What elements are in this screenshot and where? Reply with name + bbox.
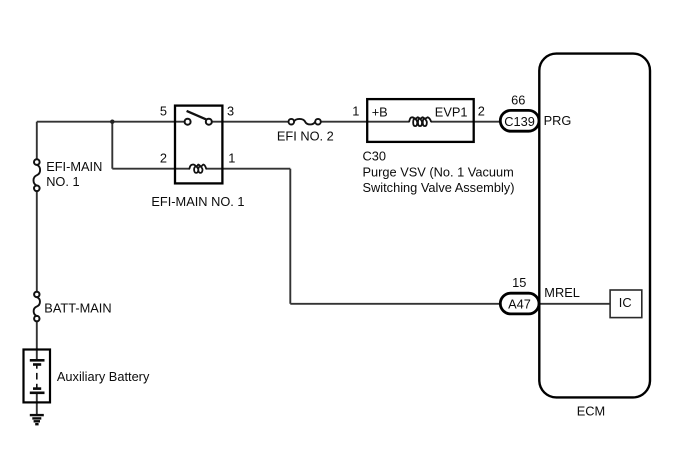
- svg-text:ECM: ECM: [577, 404, 605, 419]
- svg-text:3: 3: [227, 103, 234, 118]
- svg-text:2: 2: [160, 151, 167, 166]
- svg-text:C30: C30: [363, 149, 386, 164]
- svg-text:Purge VSV (No. 1 Vacuum: Purge VSV (No. 1 Vacuum: [363, 165, 514, 180]
- svg-text:+B: +B: [372, 104, 388, 119]
- svg-text:MREL: MREL: [544, 285, 580, 300]
- svg-text:A47: A47: [508, 297, 531, 312]
- svg-text:1: 1: [352, 103, 359, 118]
- svg-text:BATT-MAIN: BATT-MAIN: [44, 300, 111, 315]
- svg-text:EFI NO. 2: EFI NO. 2: [277, 128, 334, 143]
- svg-text:1: 1: [228, 150, 235, 165]
- svg-text:PRG: PRG: [544, 113, 572, 128]
- svg-text:IC: IC: [619, 295, 632, 310]
- svg-text:Auxiliary Battery: Auxiliary Battery: [57, 369, 150, 384]
- svg-text:EFI-MAIN NO. 1: EFI-MAIN NO. 1: [151, 194, 244, 209]
- svg-text:C139: C139: [504, 114, 535, 129]
- svg-text:NO. 1: NO. 1: [46, 174, 79, 189]
- svg-text:Switching Valve Assembly): Switching Valve Assembly): [363, 180, 515, 195]
- svg-text:5: 5: [160, 103, 167, 118]
- svg-text:66: 66: [511, 92, 525, 107]
- svg-text:15: 15: [512, 275, 526, 290]
- svg-text:EFI-MAIN: EFI-MAIN: [46, 159, 102, 174]
- svg-text:EVP1: EVP1: [435, 104, 468, 119]
- svg-text:2: 2: [478, 104, 485, 119]
